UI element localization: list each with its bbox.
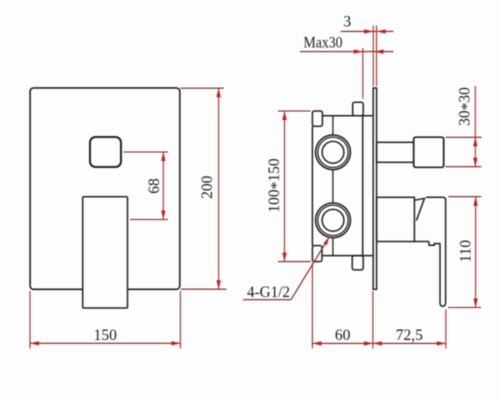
svg-text:150: 150: [94, 327, 118, 344]
svg-text:110: 110: [458, 240, 475, 263]
svg-text:68: 68: [146, 178, 163, 194]
svg-text:72,5: 72,5: [396, 327, 423, 344]
svg-text:30*30: 30*30: [456, 87, 476, 126]
svg-text:3: 3: [343, 14, 351, 31]
svg-text:Max30: Max30: [304, 35, 343, 52]
svg-text:4-G1/2: 4-G1/2: [247, 284, 290, 301]
svg-text:200: 200: [199, 175, 216, 199]
svg-text:60: 60: [335, 327, 351, 344]
svg-text:100*150: 100*150: [266, 158, 286, 213]
